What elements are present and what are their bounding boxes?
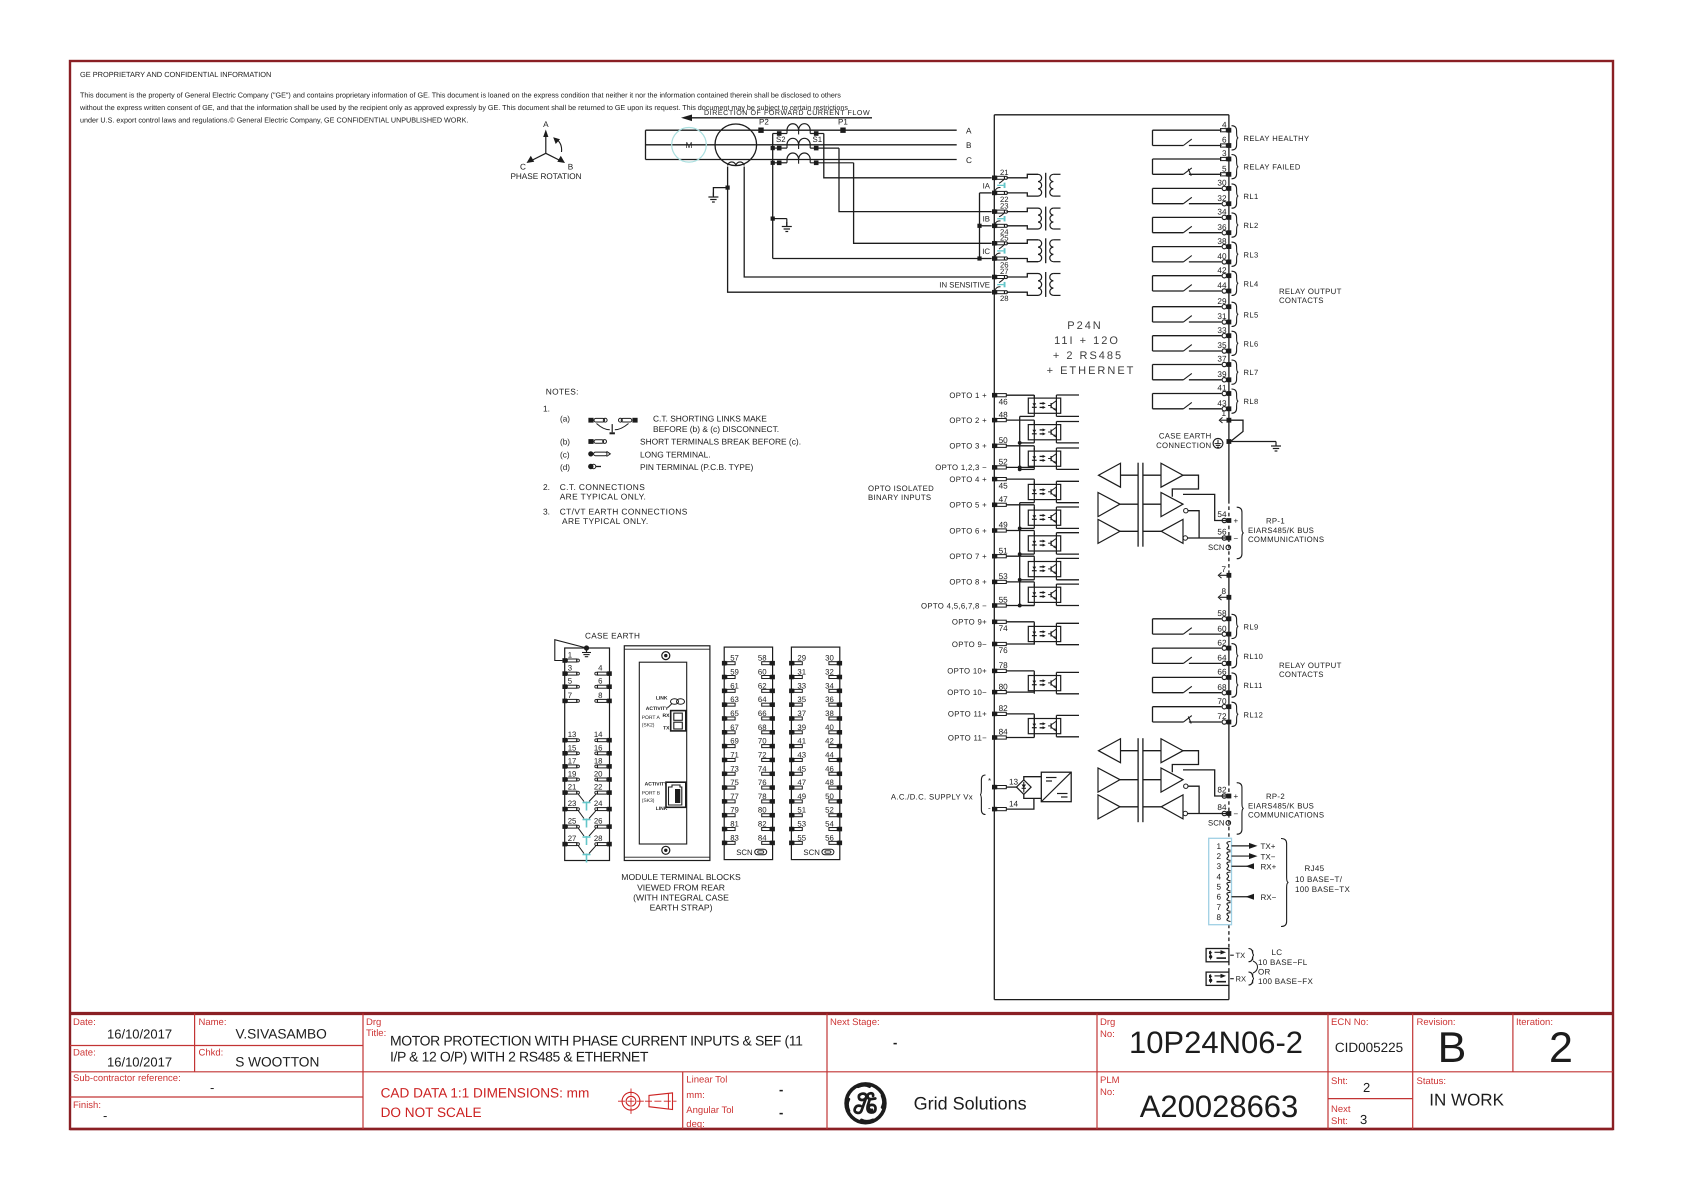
brace LC TX bbox=[1249, 949, 1255, 962]
RJ45 signal RX+ bbox=[1232, 865, 1253, 867]
block1 terminal 27 bbox=[562, 842, 567, 847]
svg-text:69: 69 bbox=[730, 737, 739, 746]
svg-text:deg:: deg: bbox=[686, 1119, 705, 1130]
svg-text:BEFORE (b) & (c) DISCONNECT.: BEFORE (b) & (c) DISCONNECT. bbox=[653, 424, 779, 434]
svg-text:62: 62 bbox=[758, 681, 767, 690]
wire OPTO 3 input bbox=[1006, 445, 1034, 447]
svg-text:48: 48 bbox=[999, 410, 1009, 419]
svg-text:8: 8 bbox=[598, 691, 602, 700]
wire OPTO 6 output bbox=[1056, 532, 1079, 534]
block terminal 73 bbox=[722, 771, 727, 776]
svg-text:Drg: Drg bbox=[366, 1017, 381, 1028]
svg-text:34: 34 bbox=[825, 681, 834, 690]
svg-text:ACTIVITY: ACTIVITY bbox=[645, 782, 668, 788]
svg-text:Name:: Name: bbox=[199, 1017, 227, 1028]
svg-text:35: 35 bbox=[797, 695, 806, 704]
svg-text:13: 13 bbox=[1009, 777, 1019, 786]
terminal 82 bbox=[1227, 794, 1232, 799]
block terminal 66 bbox=[770, 716, 775, 721]
terminal 48 (OPTO 2 +) bbox=[992, 418, 997, 423]
svg-text:RL9: RL9 bbox=[1244, 622, 1259, 631]
terminal 49 (OPTO 6 +) bbox=[992, 528, 997, 533]
wire S2 bus to terminal 26 common bbox=[773, 258, 980, 260]
wire opto cathode to common bus bbox=[1020, 415, 1035, 417]
svg-text:RL7: RL7 bbox=[1244, 368, 1259, 377]
svg-text:7: 7 bbox=[1216, 903, 1221, 912]
svg-text:58: 58 bbox=[758, 654, 767, 663]
svg-text:A: A bbox=[543, 120, 549, 129]
svg-text:(d): (d) bbox=[560, 463, 570, 472]
svg-text:M: M bbox=[686, 140, 693, 150]
svg-text:23: 23 bbox=[568, 799, 577, 808]
relay contact RL4 (terminals 42/44) bbox=[1153, 275, 1222, 277]
terminal 76 (OPTO 9-) bbox=[992, 642, 997, 647]
svg-text:41: 41 bbox=[797, 737, 806, 746]
svg-text:76: 76 bbox=[999, 646, 1009, 655]
block terminal 84 bbox=[770, 841, 775, 846]
block terminal 50 bbox=[838, 799, 843, 804]
svg-text:26: 26 bbox=[594, 817, 603, 826]
svg-text:EARTH STRAP): EARTH STRAP) bbox=[650, 903, 713, 913]
svg-text:PORT B: PORT B bbox=[642, 791, 661, 797]
wire left phase connector bbox=[645, 130, 647, 159]
terminal 84 bbox=[1227, 811, 1232, 816]
wire OPTO 6 input bbox=[1006, 530, 1034, 532]
block1 terminal 18 bbox=[607, 764, 612, 769]
wires RP-2 bbox=[1121, 750, 1139, 752]
opto-isolator OPTO 8 bbox=[1028, 587, 1060, 602]
svg-text:RL4: RL4 bbox=[1244, 279, 1259, 288]
svg-text:44: 44 bbox=[825, 750, 834, 759]
svg-text:48: 48 bbox=[825, 778, 834, 787]
terminal 13 bbox=[992, 785, 997, 790]
svg-text:28: 28 bbox=[594, 834, 603, 843]
buffer triangles RP-1 bbox=[1099, 463, 1121, 487]
svg-text:3: 3 bbox=[1216, 862, 1221, 871]
svg-text:31: 31 bbox=[1217, 312, 1227, 321]
svg-text:44: 44 bbox=[1217, 281, 1227, 290]
wire OPTO 9 input bbox=[1006, 621, 1034, 623]
svg-text:OPTO 3 +: OPTO 3 + bbox=[949, 442, 987, 451]
block terminal 83 bbox=[722, 841, 727, 846]
wire OPTO 4 output bbox=[1056, 480, 1079, 482]
wire opto cathode to common bus bbox=[1020, 527, 1035, 529]
svg-text:28: 28 bbox=[1000, 294, 1009, 303]
CT shorting link 21/22 bbox=[999, 179, 1004, 183]
brace LC RX bbox=[1249, 972, 1255, 985]
svg-text:DO NOT SCALE: DO NOT SCALE bbox=[381, 1105, 482, 1120]
svg-text:45: 45 bbox=[797, 764, 806, 773]
svg-text:DIRECTION OF FORWARD CURREN: DIRECTION OF FORWARD CURRENT FLOW bbox=[704, 109, 870, 117]
terminal 27 bbox=[992, 275, 997, 280]
CT shorting link 25/26 bbox=[999, 245, 1004, 249]
svg-text:IA: IA bbox=[983, 181, 991, 190]
buffer triangles RP-2 bbox=[1099, 739, 1121, 763]
wire OPTO 8 input bbox=[1006, 581, 1034, 583]
wire opto cathode to common bus bbox=[1020, 579, 1035, 581]
svg-text:16/10/2017: 16/10/2017 bbox=[107, 1027, 172, 1042]
svg-text:4: 4 bbox=[1216, 872, 1221, 881]
svg-text:51: 51 bbox=[999, 546, 1009, 555]
svg-text:1: 1 bbox=[568, 651, 572, 660]
svg-text:63: 63 bbox=[730, 695, 739, 704]
svg-text:8: 8 bbox=[1216, 913, 1221, 922]
block1 terminal 19 bbox=[562, 777, 567, 782]
svg-text:68: 68 bbox=[758, 723, 767, 732]
svg-text:6: 6 bbox=[1216, 893, 1221, 902]
ground case earth bbox=[1275, 442, 1277, 447]
wire OPTO 2 output bbox=[1056, 421, 1079, 423]
brace LC mid bbox=[1253, 961, 1258, 973]
svg-text:B: B bbox=[568, 163, 574, 172]
svg-text:32: 32 bbox=[1217, 194, 1227, 203]
terminal 23 bbox=[992, 209, 997, 214]
svg-text:RL1: RL1 bbox=[1244, 192, 1259, 201]
svg-text:RX: RX bbox=[1236, 975, 1247, 984]
terminal SCN RP-1 bbox=[1226, 545, 1231, 550]
svg-text:−: − bbox=[1234, 810, 1239, 819]
block terminal 43 bbox=[789, 758, 794, 763]
svg-text:8: 8 bbox=[1221, 587, 1226, 596]
svg-text:75: 75 bbox=[730, 778, 739, 787]
svg-text:(b): (b) bbox=[560, 438, 570, 447]
earth circle symbol bbox=[1213, 438, 1223, 448]
svg-text:70: 70 bbox=[1217, 697, 1227, 706]
terminal 52 (OPTO 1,2,3 -) bbox=[992, 465, 997, 470]
node S2 junction bbox=[773, 147, 787, 149]
block1 CT shorting link bbox=[578, 846, 584, 854]
svg-text:ARE TYPICAL ONLY.: ARE TYPICAL ONLY. bbox=[560, 492, 647, 502]
svg-text:80: 80 bbox=[758, 806, 767, 815]
svg-text:37: 37 bbox=[1217, 355, 1227, 364]
fiber optic TX bbox=[1206, 949, 1229, 962]
svg-text:24: 24 bbox=[594, 799, 603, 808]
block terminal 39 bbox=[789, 730, 794, 735]
wire CT A S1 to terminal 21 bbox=[810, 133, 824, 135]
svg-text:2: 2 bbox=[1216, 852, 1221, 861]
opto-isolator OPTO 1 bbox=[1028, 398, 1060, 413]
wire OPTO 9 return bbox=[1006, 643, 1034, 645]
svg-text:27: 27 bbox=[568, 834, 577, 843]
svg-text:41: 41 bbox=[1217, 384, 1227, 393]
svg-text:13: 13 bbox=[568, 730, 577, 739]
svg-text:30: 30 bbox=[825, 654, 834, 663]
wire CT core to terminal 27 bbox=[744, 167, 992, 278]
svg-text:51: 51 bbox=[797, 806, 806, 815]
block terminal 75 bbox=[722, 785, 727, 790]
svg-text:49: 49 bbox=[797, 792, 806, 801]
RJ45 signal TX− bbox=[1232, 855, 1253, 857]
terminal 21 bbox=[992, 176, 997, 181]
wire OPTO 1,2,3 common bbox=[1006, 466, 1034, 468]
wire 13 to bridge bbox=[1006, 786, 1016, 788]
svg-text:47: 47 bbox=[797, 778, 806, 787]
node case earth junction bbox=[1227, 439, 1232, 444]
svg-text:IB: IB bbox=[983, 215, 990, 224]
svg-text:7: 7 bbox=[1221, 565, 1226, 574]
svg-text:6: 6 bbox=[1222, 136, 1227, 145]
svg-text:27: 27 bbox=[1000, 267, 1009, 276]
svg-text:COMMUNICATIONS: COMMUNICATIONS bbox=[1248, 811, 1324, 820]
svg-text:54: 54 bbox=[825, 820, 834, 829]
svg-text:OPTO 1 +: OPTO 1 + bbox=[949, 391, 987, 400]
block terminal 65 bbox=[722, 716, 727, 721]
svg-text:2: 2 bbox=[1549, 1024, 1573, 1072]
block terminal 78 bbox=[770, 799, 775, 804]
svg-text:-: - bbox=[779, 1082, 783, 1097]
svg-text:7: 7 bbox=[568, 691, 572, 700]
wire opto cathode to common bus bbox=[1020, 502, 1035, 504]
svg-text:RL5: RL5 bbox=[1244, 310, 1259, 319]
wire terminals 22/24/26 common bus bbox=[979, 193, 981, 259]
svg-text:C: C bbox=[966, 156, 972, 165]
opto-isolator OPTO 9 bbox=[1028, 626, 1060, 641]
relay case outline bottom bbox=[994, 999, 1229, 1001]
svg-text:VIEWED FROM REAR: VIEWED FROM REAR bbox=[637, 883, 725, 893]
svg-text:Sht:: Sht: bbox=[1331, 1116, 1348, 1127]
block1 terminal 7 bbox=[562, 699, 567, 704]
svg-text:6: 6 bbox=[598, 677, 602, 686]
opto-isolator OPTO 11 bbox=[1028, 719, 1060, 734]
svg-text:Finish:: Finish: bbox=[73, 1100, 101, 1111]
svg-text:84: 84 bbox=[999, 728, 1009, 737]
svg-text:49: 49 bbox=[999, 521, 1009, 530]
block terminal 49 bbox=[789, 799, 794, 804]
svg-text:84: 84 bbox=[1217, 803, 1227, 812]
svg-text:22: 22 bbox=[594, 783, 603, 792]
svg-text:33: 33 bbox=[797, 681, 806, 690]
svg-text:Chkd:: Chkd: bbox=[199, 1048, 224, 1059]
relay contact RELAY FAILED (terminals 3/5) bbox=[1153, 158, 1222, 160]
block terminal 47 bbox=[789, 785, 794, 790]
block terminal 58 bbox=[770, 661, 775, 666]
wire OPTO 11 return bbox=[1006, 737, 1034, 739]
svg-text:Next: Next bbox=[1331, 1104, 1351, 1115]
svg-text:3: 3 bbox=[1360, 1112, 1367, 1127]
svg-text:-: - bbox=[893, 1035, 897, 1050]
svg-text:58: 58 bbox=[1217, 609, 1227, 618]
block terminal 55 bbox=[789, 841, 794, 846]
opto-isolator OPTO 6 bbox=[1028, 536, 1060, 551]
block terminal 31 bbox=[789, 675, 794, 680]
wire case earth to ground bbox=[1231, 441, 1276, 443]
block terminal 44 bbox=[838, 758, 843, 763]
svg-text:54: 54 bbox=[1217, 510, 1227, 519]
relay contact RL11 (terminals 66/68) bbox=[1153, 676, 1222, 678]
svg-text:67: 67 bbox=[730, 723, 739, 732]
wire opto cathode to common bus bbox=[1020, 442, 1035, 444]
wires RP-1 bbox=[1121, 474, 1139, 476]
svg-text:PLM: PLM bbox=[1100, 1075, 1120, 1086]
block terminal 54 bbox=[838, 827, 843, 832]
svg-text:5: 5 bbox=[568, 677, 573, 686]
svg-text:64: 64 bbox=[1217, 654, 1227, 663]
svg-text:100 BASE−TX: 100 BASE−TX bbox=[1295, 885, 1350, 894]
node S2 earth tap bbox=[771, 217, 775, 221]
svg-text:OPTO 8 +: OPTO 8 + bbox=[949, 578, 987, 587]
block1 terminal 15 bbox=[562, 751, 567, 756]
terminal 74 (OPTO 9+) bbox=[992, 620, 997, 625]
brace RJ45 bbox=[1281, 839, 1289, 927]
svg-text:46: 46 bbox=[999, 397, 1009, 406]
fiber optic RX bbox=[1206, 972, 1229, 985]
svg-text:65: 65 bbox=[730, 709, 739, 718]
svg-text:No:: No: bbox=[1100, 1029, 1115, 1040]
wire OPTO 1 output bbox=[1056, 394, 1079, 396]
CT shorting link 23/24 bbox=[999, 213, 1004, 217]
svg-text:Sub-contractor reference:: Sub-contractor reference: bbox=[73, 1073, 181, 1084]
block terminal 71 bbox=[722, 758, 727, 763]
svg-text:82: 82 bbox=[1217, 785, 1227, 794]
block terminal 67 bbox=[722, 730, 727, 735]
wire OPTO 9 output bbox=[1056, 622, 1079, 624]
svg-text:RP-1: RP-1 bbox=[1266, 516, 1285, 525]
port B RJ45 socket bbox=[666, 782, 686, 807]
svg-text:OPTO 10−: OPTO 10− bbox=[947, 688, 987, 697]
svg-text:*: * bbox=[988, 777, 991, 786]
svg-text:OR: OR bbox=[1258, 968, 1271, 977]
svg-text:10 BASE−FL: 10 BASE−FL bbox=[1258, 958, 1308, 967]
svg-text:RELAY FAILED: RELAY FAILED bbox=[1244, 163, 1301, 172]
svg-text:68: 68 bbox=[1217, 683, 1227, 692]
terminal 45 (OPTO 4 +) bbox=[992, 477, 997, 482]
block terminal 52 bbox=[838, 813, 843, 818]
terminal 84 (OPTO 11-) bbox=[992, 735, 997, 740]
svg-text:40: 40 bbox=[1217, 252, 1227, 261]
block1 terminal 17 bbox=[562, 764, 567, 769]
block terminal 62 bbox=[770, 689, 775, 694]
GE logo bbox=[846, 1084, 885, 1123]
svg-text:P2: P2 bbox=[759, 118, 769, 127]
svg-text:OPTO 5 +: OPTO 5 + bbox=[949, 501, 987, 510]
svg-text:21: 21 bbox=[568, 783, 577, 792]
svg-text:A: A bbox=[966, 127, 972, 136]
svg-text:GE PROPRIETARY AND CONFIDENTIA: GE PROPRIETARY AND CONFIDENTIAL INFORMAT… bbox=[80, 70, 271, 79]
svg-text:3.: 3. bbox=[543, 506, 550, 516]
svg-text:RX−: RX− bbox=[1261, 893, 1277, 902]
svg-text:A.C./D.C. SUPPLY Vx: A.C./D.C. SUPPLY Vx bbox=[891, 793, 973, 802]
svg-text:1: 1 bbox=[1221, 409, 1226, 418]
svg-text:2.: 2. bbox=[543, 482, 550, 492]
block terminal 51 bbox=[789, 813, 794, 818]
block1 terminal 24 bbox=[607, 807, 612, 812]
svg-text:SCN: SCN bbox=[803, 848, 819, 857]
wire OPTO 4 input bbox=[1006, 478, 1034, 480]
relay contact RL9 (terminals 58/60) bbox=[1153, 618, 1222, 620]
opto-isolator OPTO 4 bbox=[1028, 484, 1060, 499]
terminal 26 bbox=[992, 256, 997, 261]
terminal 51 (OPTO 7 +) bbox=[992, 554, 997, 559]
block terminal 68 bbox=[770, 730, 775, 735]
svg-text:BINARY INPUTS: BINARY INPUTS bbox=[868, 493, 931, 502]
svg-text:59: 59 bbox=[730, 668, 739, 677]
svg-text:82: 82 bbox=[758, 820, 767, 829]
svg-text:70: 70 bbox=[758, 737, 767, 746]
svg-text:18: 18 bbox=[594, 756, 603, 765]
block terminal 80 bbox=[770, 813, 775, 818]
brace RP-1 bbox=[1237, 507, 1244, 559]
opto-isolator OPTO 7 bbox=[1028, 562, 1060, 577]
svg-text:(WITH INTEGRAL CASE: (WITH INTEGRAL CASE bbox=[633, 893, 729, 903]
block terminal 79 bbox=[722, 813, 727, 818]
svg-text:53: 53 bbox=[999, 572, 1009, 581]
svg-text:RELAY OUTPUT: RELAY OUTPUT bbox=[1279, 661, 1342, 670]
svg-text:COMMUNICATIONS: COMMUNICATIONS bbox=[1248, 535, 1324, 544]
terminal 54 bbox=[1227, 518, 1232, 523]
svg-text:82: 82 bbox=[999, 704, 1009, 713]
svg-text:P1: P1 bbox=[838, 118, 848, 127]
ground core CT earth bbox=[712, 193, 714, 198]
terminal SCN RP-2 bbox=[1226, 821, 1231, 826]
svg-text:CONTACTS: CONTACTS bbox=[1279, 670, 1324, 679]
opto-isolator OPTO 3 bbox=[1028, 451, 1060, 466]
port A ST connector bbox=[671, 711, 686, 731]
svg-text:50: 50 bbox=[999, 436, 1009, 445]
svg-text:46: 46 bbox=[825, 764, 834, 773]
svg-text:ARE TYPICAL ONLY.: ARE TYPICAL ONLY. bbox=[562, 516, 649, 526]
svg-text:60: 60 bbox=[1217, 624, 1227, 633]
svg-text:39: 39 bbox=[1217, 370, 1227, 379]
block terminal 41 bbox=[789, 744, 794, 749]
svg-text:EIARS485/K BUS: EIARS485/K BUS bbox=[1248, 802, 1314, 811]
svg-text:RL3: RL3 bbox=[1244, 250, 1259, 259]
relay contact RL1 (terminals 30/32) bbox=[1153, 187, 1222, 189]
svg-text:I/P & 12 O/P) WITH 2 RS485 & E: I/P & 12 O/P) WITH 2 RS485 & ETHERNET bbox=[390, 1048, 649, 1064]
svg-text:RX+: RX+ bbox=[1261, 862, 1277, 871]
opto-isolator OPTO 2 bbox=[1028, 425, 1060, 440]
svg-text:17: 17 bbox=[568, 756, 577, 765]
svg-text:35: 35 bbox=[1217, 341, 1227, 350]
CT phase C secondary winding bbox=[787, 153, 799, 159]
svg-text:RX: RX bbox=[663, 713, 671, 719]
svg-text:32: 32 bbox=[825, 668, 834, 677]
svg-text:OPTO 9+: OPTO 9+ bbox=[952, 618, 987, 627]
node A phase line bbox=[646, 129, 957, 131]
svg-text:38: 38 bbox=[825, 709, 834, 718]
svg-text:This document is the property: This document is the property of General… bbox=[80, 90, 841, 99]
svg-text:15: 15 bbox=[568, 743, 577, 752]
svg-text:Next Stage:: Next Stage: bbox=[830, 1017, 880, 1028]
block1 terminal 22 bbox=[607, 790, 612, 795]
svg-text:V.SIVASAMBO: V.SIVASAMBO bbox=[236, 1027, 327, 1042]
svg-text:66: 66 bbox=[1217, 668, 1227, 677]
svg-text:LINK: LINK bbox=[656, 696, 668, 702]
svg-text:+: + bbox=[1234, 792, 1239, 801]
brace supply bbox=[980, 775, 986, 815]
terminal 46 (OPTO 1 +) bbox=[992, 393, 997, 398]
svg-text:S2: S2 bbox=[776, 135, 786, 144]
svg-text:19: 19 bbox=[568, 770, 577, 779]
block1 terminal 8 bbox=[607, 699, 612, 704]
opto-isolator OPTO 10 bbox=[1028, 676, 1060, 691]
svg-text:78: 78 bbox=[758, 792, 767, 801]
block1 terminal 28 bbox=[607, 842, 612, 847]
block terminal 56 bbox=[838, 841, 843, 846]
svg-text:OPTO 4 +: OPTO 4 + bbox=[949, 475, 987, 484]
svg-text:RL12: RL12 bbox=[1244, 710, 1264, 719]
svg-text:29: 29 bbox=[1217, 297, 1227, 306]
svg-text:IN WORK: IN WORK bbox=[1429, 1091, 1504, 1110]
label P24N model bbox=[1047, 320, 1136, 377]
svg-text:78: 78 bbox=[999, 661, 1009, 670]
svg-text:1.: 1. bbox=[543, 404, 550, 414]
relay case outline top bbox=[994, 114, 1229, 116]
svg-text:RELAY HEALTHY: RELAY HEALTHY bbox=[1244, 134, 1310, 143]
wire OPTO 5 output bbox=[1056, 506, 1079, 508]
wire OPTO 10 output bbox=[1056, 671, 1079, 673]
relay contact RL2 (terminals 34/36) bbox=[1153, 216, 1222, 218]
isolation barrier RP-2 bbox=[1137, 738, 1139, 822]
